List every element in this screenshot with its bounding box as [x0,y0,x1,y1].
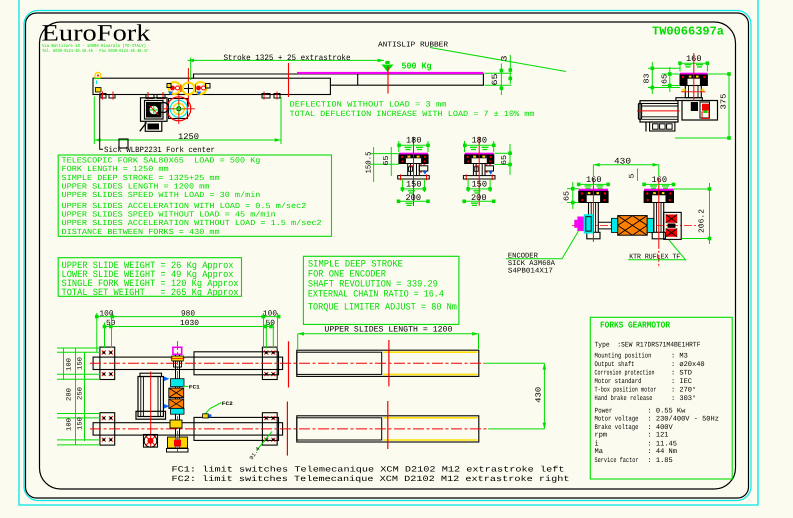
base bar mounting feet right [262,92,280,100]
svg-text:150: 150 [77,417,84,430]
svg-text:150.5: 150.5 [365,151,374,173]
FC2 note [172,475,570,484]
svg-text:375: 375 [720,93,729,110]
svg-text:500 Kg: 500 Kg [402,62,432,72]
shaft lower coupling cyan [171,408,185,414]
svg-text:1030: 1030 [180,319,199,328]
svg-text:FC1: FC1 [189,384,200,390]
svg-text:FC2: FC2 [222,401,233,407]
svg-text:206.2: 206.2 [698,209,707,233]
dimension 3 rubber thickness [501,55,513,84]
svg-text:TOTAL DEFLECTION INCREASE WITH: TOTAL DEFLECTION INCREASE WITH LOAD = 7 … [290,110,535,119]
logo address line 1 [42,43,146,49]
svg-text:UPPER SLIDES SPEED WITH LOAD =: UPPER SLIDES SPEED WITH LOAD = 30 m/min [62,191,261,200]
FC2 limit switch label [203,401,233,418]
svg-text:1250: 1250 [178,132,199,142]
svg-text:TW0066397a: TW0066397a [652,25,724,39]
svg-text:65: 65 [500,154,509,165]
spec box 1 frame [58,155,331,236]
svg-text:UPPER SLIDES LENGTH = 1200 mm: UPPER SLIDES LENGTH = 1200 mm [62,183,210,192]
base bar mounting feet middle [146,92,165,100]
dim 83 left of motor [643,62,680,94]
KTR label leader [628,240,686,260]
torque limiter (KTR RUFLEX) [664,212,682,239]
antislip rubber strip (magenta) [297,72,483,74]
svg-text:i: i [595,439,599,448]
spec box 2 text [62,260,239,298]
svg-text:160: 160 [586,175,602,185]
svg-text:3: 3 [501,55,510,61]
cross section A (at 1st fork) [398,137,430,206]
svg-text:: IEC: : IEC [671,378,692,386]
encoder (magenta) [574,217,584,232]
svg-text:FC2: limit switches Telemecani: FC2: limit switches Telemecanique XCM D2… [172,475,570,484]
row 2 mounting plate right [262,413,277,445]
gearmotor side view body [141,98,168,122]
svg-text:ANTISLIP RUBBER: ANTISLIP RUBBER [378,41,449,50]
spec box 2 frame (weights) [58,258,241,297]
svg-text:180: 180 [472,136,488,146]
svg-text:65: 65 [382,155,391,166]
motor terminal box [646,122,675,132]
svg-text:FC1: limit switches Telemecani: FC1: limit switches Telemecanique XCM D2… [172,465,565,474]
shaft upper coupling cyan [171,379,185,387]
svg-text:SIMPLE DEEP STROKE = 1325+25 m: SIMPLE DEEP STROKE = 1325+25 mm [62,174,220,183]
svg-text:Tel. 0039-0124-48.40.46 - Fax: Tel. 0039-0124-48.40.46 - Fax 0039-0124-… [42,48,148,54]
left rotated dimension chains [57,348,100,445]
svg-text:83: 83 [643,73,652,84]
plan view vertical drive shaft [176,341,180,452]
cross section B (at 2nd fork) [463,137,495,206]
svg-text:rpm: rpm [595,432,608,440]
svg-text:160: 160 [652,175,668,185]
dim 160 above motor [678,54,709,72]
red chain anchor line [187,68,189,107]
svg-text:Corrosion protection: Corrosion protection [595,368,655,377]
gearbox body [682,101,718,121]
row 1 mounting plate right [262,347,277,379]
svg-text:280: 280 [66,388,73,401]
upper slides length dimension [298,326,479,349]
encoder coupling cyan block [584,214,593,233]
dim 5 small top right post [629,169,638,182]
section B dim 200 [462,193,495,206]
svg-text:UPPER SLIDES ACCELERATION WITH: UPPER SLIDES ACCELERATION WITH LOAD = 0.… [62,202,307,211]
dim 160 right post [642,175,675,188]
svg-text:FORKS GEARMOTOR: FORKS GEARMOTOR [600,321,671,331]
svg-text:150: 150 [472,180,488,190]
red section line at mid fork [288,63,290,97]
svg-text:100: 100 [263,309,277,318]
spec box 3 frame (encoder) [303,256,459,324]
Sick fork center label [100,94,215,156]
svg-text:200: 200 [471,193,487,203]
section A dim 200 [397,193,430,206]
chain rollers on top of base bar [167,82,210,95]
gearmotor table frame [590,317,732,479]
svg-text:50: 50 [266,319,276,328]
gearmotor table rows [595,341,719,465]
shaft lower bearing yellow [170,420,182,428]
svg-text:200: 200 [406,193,422,203]
svg-text:980: 980 [181,309,195,318]
svg-text:T-box position motor: T-box position motor [595,385,657,394]
antislip rubber leader line [430,48,566,72]
plan view gearmotor [136,372,166,448]
dim 430 between rails (rotated) [485,363,547,429]
svg-text:65: 65 [660,73,669,84]
spec box 3 text [308,258,457,312]
svg-text:Motor standard: Motor standard [595,377,642,386]
svg-text:: 303°: : 303° [671,395,696,403]
sick sensor square symbol [119,139,128,148]
motor centerline vertical [693,53,695,101]
svg-text:DISTANCE BETWEEN FORKS = 430 m: DISTANCE BETWEEN FORKS = 430 mm [62,228,220,237]
svg-text:430: 430 [535,386,544,402]
elastic coupling (orange) [612,216,654,236]
motor cylinder [637,101,680,122]
fork left end roller marks [94,73,102,93]
500 Kg load label [402,62,432,72]
500 Kg load arrow [382,61,394,72]
rotated leader label 91.4 [248,432,272,462]
EuroFork logo text [42,21,151,47]
svg-text:150: 150 [406,180,422,190]
row 1 mounting plate left [100,347,115,379]
fork base bar (lower slide, side view) [93,78,330,94]
fork post left (with encoder) [579,178,608,242]
svg-text:180: 180 [406,136,422,146]
svg-text:Motor voltage: Motor voltage [595,414,639,423]
section A dim 150 [401,179,427,193]
section B dim 180 [463,136,496,152]
drive sprocket side view [159,93,196,124]
second dimension row 50/1030/50 [103,319,276,328]
section B dim 150 [466,179,492,193]
svg-text:S4PB014X17: S4PB014X17 [508,268,553,276]
svg-text:FORK LENGTH = 1250 mm: FORK LENGTH = 1250 mm [62,165,169,174]
dim 375 right of motor [675,72,731,140]
svg-text:DEFLECTION WITHOUT LOAD = 3 mm: DEFLECTION WITHOUT LOAD = 3 mm [290,100,447,109]
FC1 limit switch label [183,384,200,390]
FC1 note [172,465,565,474]
svg-text:Power: Power [595,407,613,415]
dim 65 left of motor [660,67,680,92]
black inner rounded frame [40,22,736,489]
drive shaft between posts [572,222,700,229]
svg-text:TOTAL SET WEIGHT = 265 Kg Ap: TOTAL SET WEIGHT = 265 Kg Approx [62,287,239,298]
stroke dimension line [188,58,384,81]
row 1 centerline [90,362,485,364]
deflection note line 1 [290,100,447,109]
svg-text:65: 65 [491,73,500,85]
encoder label [508,253,556,276]
row 1 red section lines [289,340,389,388]
fork section above motor [680,73,707,86]
svg-text:EXTERNAL CHAIN RATIO = 16.4: EXTERNAL CHAIN RATIO = 16.4 [308,288,444,299]
shaft top bearing yellow [171,356,185,367]
fork post right (with torque limiter) [644,178,673,268]
svg-text:Type :SEW R17DRS71M4BE1HRTF: Type :SEW R17DRS71M4BE1HRTF [595,341,701,349]
deflection note line 2 [290,110,535,119]
section A left dim 150.5 [365,147,399,182]
svg-text:Hand brake release: Hand brake release [595,394,653,403]
dimension 65 fork thickness [484,64,511,96]
encoder label leader [506,231,578,259]
dim 206.2 right [674,183,712,244]
shaft top encoder (magenta) [173,347,182,354]
stroke dimension text [224,54,351,63]
shaft bottom assembly [167,437,189,452]
svg-text:: 270°: : 270° [671,386,696,394]
logo address line 2 [42,48,148,54]
plan view rail row 2 [93,416,479,442]
svg-text:: M3: : M3 [671,352,688,360]
section A dim 180 [397,136,430,152]
svg-text:UPPER SLIDES SPEED WITHOUT LOA: UPPER SLIDES SPEED WITHOUT LOAD = 45 m/m… [62,211,276,220]
svg-text:: 1.85: : 1.85 [648,457,673,465]
fork upper slide bar (side view) [194,74,484,85]
svg-text:: 0.55 Kw: : 0.55 Kw [648,407,687,415]
svg-text:Brake voltage: Brake voltage [595,423,639,432]
svg-text:UPPER SLIDES ACCELERATION WITH: UPPER SLIDES ACCELERATION WITHOUT LOAD =… [62,219,322,228]
svg-text:EuroFork: EuroFork [42,21,151,47]
shaft orange couplings [169,388,184,408]
KTR RUFLEX TF label [629,253,680,261]
svg-text:: 230/400V - 50Hz: : 230/400V - 50Hz [648,414,719,423]
svg-text:430: 430 [614,156,631,166]
top dimension row 100/980/100 [95,309,280,318]
svg-text:100: 100 [66,418,73,431]
drawing number TW0066397a [652,25,724,39]
svg-text:UPPER SLIDES LENGTH = 1200: UPPER SLIDES LENGTH = 1200 [324,326,452,335]
red load section line [387,67,389,94]
motor mounting plate [676,98,702,101]
svg-text:5: 5 [629,174,637,179]
svg-text:: 44 Nm: : 44 Nm [648,448,677,456]
plan view rail row 1 [93,350,479,376]
dim 160 left post [577,175,610,188]
svg-text:TORQUE LIMITER ADJUST = 80 Nm: TORQUE LIMITER ADJUST = 80 Nm [308,301,457,312]
svg-text:TELESCOPIC FORK SAL80X65 LOAD: TELESCOPIC FORK SAL80X65 LOAD = 500 Kg [62,157,261,166]
svg-text:100: 100 [66,358,73,371]
row 2 red section lines [287,401,387,456]
svg-text:Service factor: Service factor [595,456,639,465]
svg-text:Stroke 1325 + 25 extrastroke: Stroke 1325 + 25 extrastroke [224,54,351,63]
row 2 centerline [90,428,488,430]
svg-text:: 121: : 121 [648,432,669,440]
dim 65 left of assembly [563,182,579,209]
section B right dim 65 [495,144,513,175]
svg-text:65: 65 [563,190,572,201]
shaft blue arrows [164,377,170,409]
plan view motor brake wheel [144,435,158,448]
dim 430 between posts [593,156,658,176]
gearmotor table title [600,321,671,331]
antislip rubber label [378,41,449,50]
svg-text:50: 50 [106,319,116,328]
svg-text:Ma: Ma [595,448,603,456]
svg-text:: STD: : STD [671,369,692,377]
base bar mounting feet left [101,92,115,100]
svg-text:: ø20x40: : ø20x40 [671,361,705,369]
row 2 mounting plate left [100,413,115,445]
dimension 1250 [94,97,281,145]
svg-text:Output shaft: Output shaft [595,360,635,369]
dimension extension verticals top [97,313,278,352]
left rotated dim labels [66,357,84,431]
svg-text:Mounting position: Mounting position [595,351,652,360]
svg-text:150: 150 [77,357,84,370]
motor support bracket side view [140,122,162,131]
spec box 1 text [62,157,322,237]
motor shaft housing [681,86,706,98]
svg-text:250: 250 [77,387,84,400]
